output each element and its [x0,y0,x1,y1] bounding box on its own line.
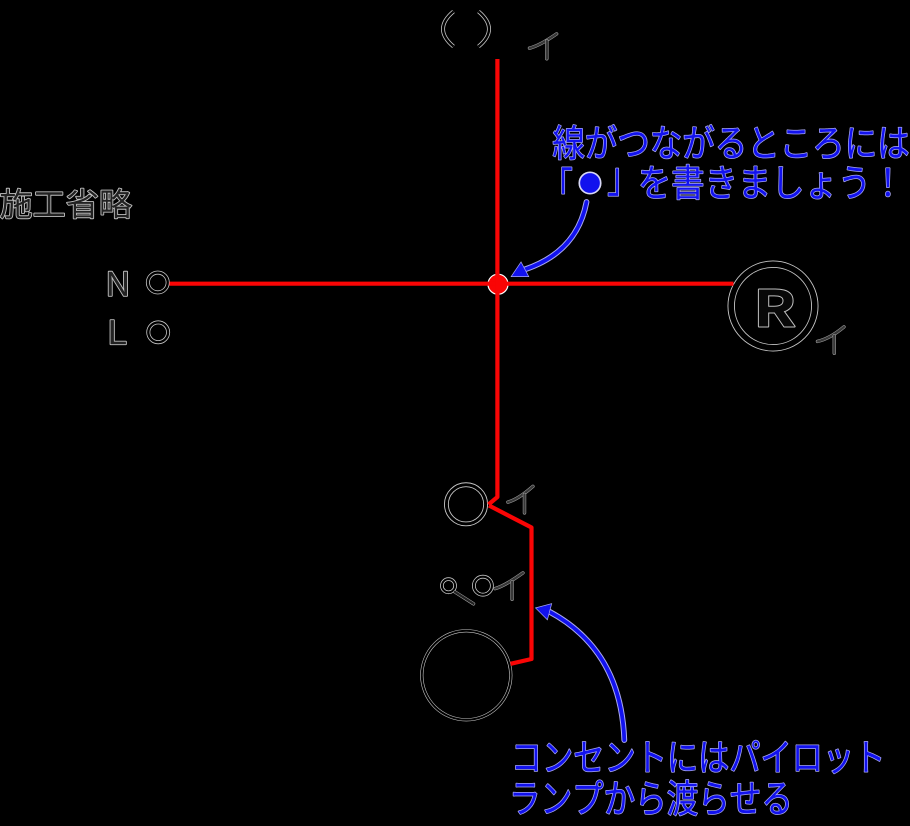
annotation text line 1 [553,125,908,160]
annotation text line 2 open bracket [562,167,572,193]
terminal label L [111,320,126,344]
outlet circle [422,631,511,720]
lamp receptacle R circle [731,264,815,348]
terminal N circle [148,273,168,293]
annotation text line 4 [514,780,789,816]
label イ (switch) [508,486,533,513]
switch イ circle [446,485,485,524]
ceiling light symbol ( ) [443,12,489,47]
terminal label N [109,272,127,296]
wire switch to outlet [489,506,532,664]
annotation text line 2 close bracket [608,168,618,196]
annotation blue dot ● [579,172,600,193]
label イ (lamp receptacle) [818,327,844,353]
label 施工省略 [1,189,132,219]
annotation text line 2 [641,165,890,200]
label イ (ceiling light) [530,34,557,59]
wire ceiling light down through junction to switch (vertical) [489,59,498,505]
junction dot [488,274,508,294]
label イ (pilot) [495,573,523,599]
blue arrow to outlet wire [536,604,624,740]
blue arrow to junction [512,202,587,276]
annotation text line 3 [516,741,881,774]
wire N terminal to lamp R (horizontal) [170,282,734,286]
pilot lamp symbol circle with tail [442,579,474,604]
pilot lamp symbol second circle [474,577,492,595]
label R [759,290,795,327]
terminal L circle [148,322,168,342]
